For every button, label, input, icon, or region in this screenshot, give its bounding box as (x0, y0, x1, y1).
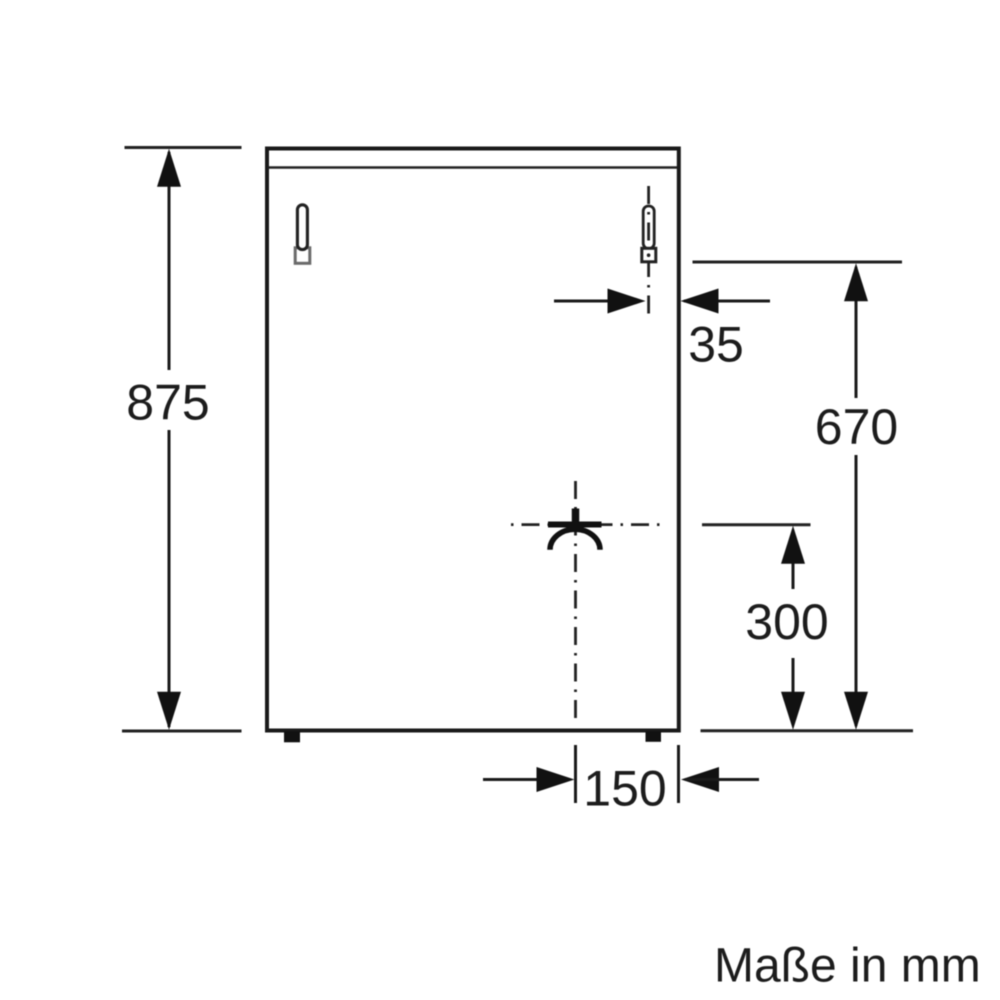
svg-text:875: 875 (126, 375, 209, 431)
svg-text:670: 670 (815, 399, 898, 455)
svg-text:Maße in mm: Maße in mm (714, 940, 981, 993)
left foot (284, 731, 300, 742)
water connection symbol (548, 509, 602, 550)
center horizontal dash-dot line (511, 523, 662, 526)
center vertical dash-dot line (574, 481, 577, 723)
dimension 875 (left) (122, 148, 242, 732)
svg-text:35: 35 (688, 317, 744, 373)
power cord symbol (right) with centerline (642, 186, 656, 322)
dimension 35 (top right) (554, 289, 770, 373)
floor extension line (right of cabinet) (701, 729, 914, 732)
top panel line (268, 166, 677, 169)
svg-text:300: 300 (745, 594, 828, 650)
dimension 670 (right) (693, 262, 903, 730)
svg-text:150: 150 (583, 761, 666, 817)
dimension 300 (inner right) (702, 525, 829, 730)
right foot (646, 731, 662, 742)
dimension 150 (bottom) (483, 745, 759, 817)
appliance outline (267, 149, 679, 731)
screw symbol (left) (295, 205, 310, 263)
